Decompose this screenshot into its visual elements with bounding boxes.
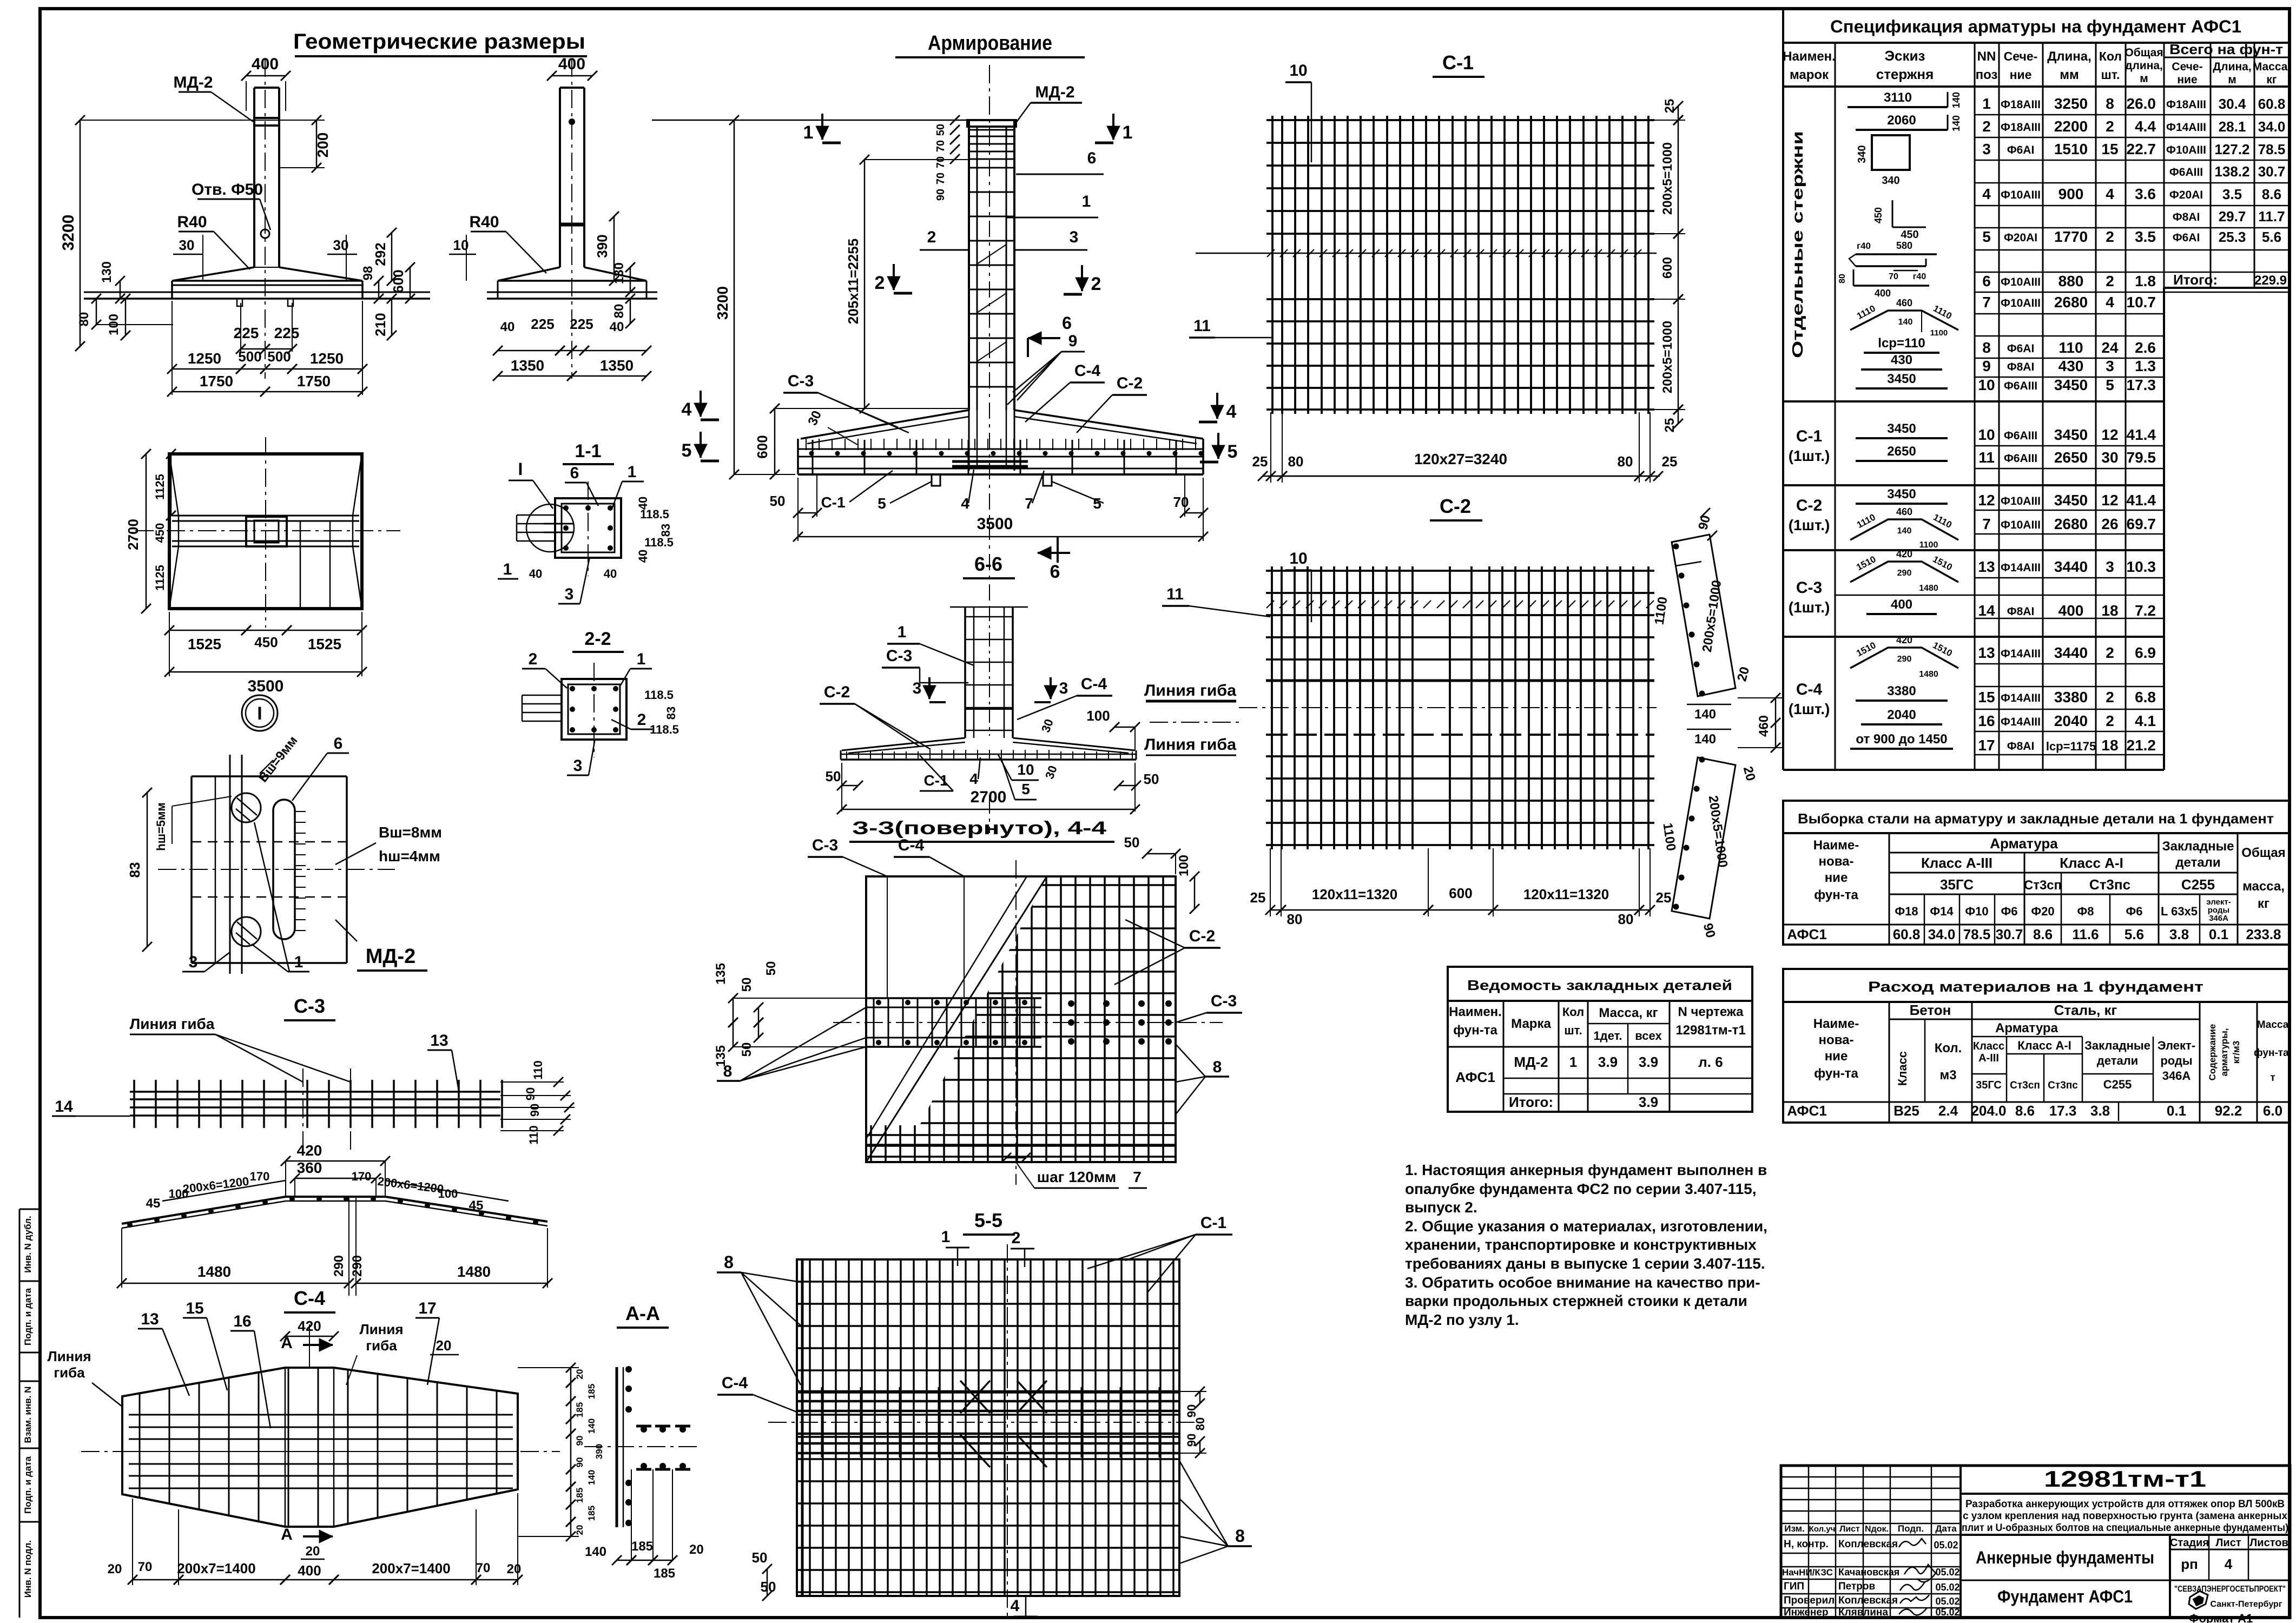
view: front elevation of foundation bbox=[84, 58, 430, 379]
svg-text:05.02: 05.02 bbox=[1934, 1540, 1958, 1551]
svg-text:1100: 1100 bbox=[1919, 540, 1938, 550]
svg-text:Линия гиба: Линия гиба bbox=[1144, 682, 1236, 700]
svg-text:Ф10: Ф10 bbox=[1965, 905, 1988, 918]
svg-text:С-4: С-4 bbox=[722, 1374, 748, 1392]
svg-text:Ст3сп: Ст3сп bbox=[2010, 1080, 2040, 1091]
svg-text:масса,: масса, bbox=[2242, 879, 2285, 894]
svg-text:л. 6: л. 6 bbox=[1698, 1054, 1723, 1070]
svg-text:Ф10АIII: Ф10АIII bbox=[2001, 276, 2041, 288]
svg-text:3200: 3200 bbox=[714, 286, 731, 320]
svg-text:длина,: длина, bbox=[2125, 60, 2163, 72]
dimensions between strip details (140/460/140) bbox=[1687, 693, 1783, 753]
svg-text:1: 1 bbox=[941, 1228, 951, 1246]
svg-text:90: 90 bbox=[528, 1104, 542, 1117]
table rows: specification data bbox=[1783, 95, 2289, 755]
svg-text:м: м bbox=[2228, 74, 2236, 86]
svg-text:200x7=1400: 200x7=1400 bbox=[372, 1560, 450, 1576]
svg-text:70: 70 bbox=[935, 140, 947, 152]
svg-text:80: 80 bbox=[612, 304, 626, 319]
svg-text:25: 25 bbox=[1662, 418, 1677, 433]
svg-text:I: I bbox=[518, 459, 523, 479]
svg-text:900: 900 bbox=[2059, 186, 2084, 202]
svg-text:Линия: Линия bbox=[359, 1321, 403, 1337]
svg-text:50: 50 bbox=[1144, 771, 1159, 787]
svg-text:83: 83 bbox=[659, 524, 672, 537]
svg-text:118.5: 118.5 bbox=[644, 536, 674, 549]
svg-text:Спецификация арматуры на фу: Спецификация арматуры на фундамент АФС1 bbox=[1830, 17, 2241, 36]
svg-text:5-5: 5-5 bbox=[974, 1209, 1002, 1231]
svg-text:12: 12 bbox=[1978, 492, 1995, 509]
svg-text:30.4: 30.4 bbox=[2219, 96, 2246, 112]
svg-text:3500: 3500 bbox=[248, 677, 284, 695]
svg-text:16: 16 bbox=[233, 1312, 251, 1330]
svg-text:340: 340 bbox=[1882, 175, 1899, 187]
svg-text:3250: 3250 bbox=[2054, 95, 2088, 112]
svg-text:1250: 1250 bbox=[188, 350, 221, 367]
svg-text:МД-2: МД-2 bbox=[173, 74, 213, 91]
svg-text:8.6: 8.6 bbox=[2015, 1103, 2035, 1119]
svg-text:Ф14: Ф14 bbox=[1930, 905, 1954, 918]
svg-text:30.7: 30.7 bbox=[2258, 163, 2286, 180]
svg-text:г40: г40 bbox=[1913, 272, 1926, 281]
svg-text:С-4: С-4 bbox=[898, 836, 925, 854]
svg-text:арматуры,: арматуры, bbox=[2219, 1028, 2229, 1076]
svg-text:2: 2 bbox=[1012, 1229, 1021, 1247]
svg-text:Ф14АIII: Ф14АIII bbox=[2001, 648, 2041, 660]
svg-text:290: 290 bbox=[332, 1255, 346, 1277]
svg-text:5: 5 bbox=[1093, 495, 1101, 512]
svg-text:346А: 346А bbox=[2162, 1069, 2191, 1083]
svg-text:80: 80 bbox=[1838, 274, 1847, 283]
svg-text:50: 50 bbox=[826, 768, 841, 784]
svg-text:Вш=8мм: Вш=8мм bbox=[379, 824, 442, 841]
svg-text:2680: 2680 bbox=[2054, 294, 2088, 311]
svg-text:118.5: 118.5 bbox=[650, 723, 679, 736]
svg-text:гиба: гиба bbox=[366, 1337, 397, 1354]
svg-text:1250: 1250 bbox=[310, 350, 344, 367]
svg-text:Проверил: Проверил bbox=[1784, 1595, 1835, 1606]
svg-text:1525: 1525 bbox=[188, 636, 221, 652]
svg-text:13: 13 bbox=[1978, 558, 1995, 575]
svg-text:3.6: 3.6 bbox=[2135, 186, 2156, 202]
svg-text:4: 4 bbox=[961, 495, 969, 512]
svg-text:80: 80 bbox=[1193, 1417, 1207, 1430]
svg-text:Качановская: Качановская bbox=[1838, 1567, 1899, 1578]
svg-text:127.2: 127.2 bbox=[2214, 141, 2249, 157]
svg-text:8: 8 bbox=[2106, 95, 2114, 112]
svg-text:3. Обратить особое внимание на: 3. Обратить особое внимание на качество … bbox=[1405, 1274, 1760, 1291]
svg-text:Линия гиба: Линия гиба bbox=[130, 1015, 215, 1032]
svg-text:Н, контр.: Н, контр. bbox=[1784, 1539, 1829, 1550]
svg-text:NN: NN bbox=[1977, 49, 1996, 64]
svg-text:140: 140 bbox=[1898, 318, 1913, 327]
svg-text:83: 83 bbox=[127, 862, 143, 878]
svg-text:6: 6 bbox=[1982, 273, 1991, 289]
svg-text:140: 140 bbox=[1951, 92, 1962, 108]
svg-text:3450: 3450 bbox=[2054, 426, 2088, 443]
svg-text:118.5: 118.5 bbox=[644, 688, 674, 702]
view: С-4 mesh (bent, plan) bbox=[81, 1287, 560, 1527]
svg-text:Класс А-III: Класс А-III bbox=[1921, 855, 1992, 871]
svg-text:Класс А-I: Класс А-I bbox=[2017, 1039, 2071, 1052]
labels and dims: С-2 bbox=[1250, 550, 1672, 927]
svg-text:Ф6АIII: Ф6АIII bbox=[2004, 380, 2037, 392]
svg-text:120x11=1320: 120x11=1320 bbox=[1312, 886, 1397, 902]
svg-text:450: 450 bbox=[254, 634, 278, 650]
svg-text:400: 400 bbox=[252, 55, 279, 73]
svg-text:225: 225 bbox=[570, 316, 593, 332]
svg-text:1480: 1480 bbox=[197, 1263, 231, 1280]
svg-text:3: 3 bbox=[2106, 358, 2114, 374]
svg-text:6.0: 6.0 bbox=[2263, 1103, 2282, 1119]
svg-text:138.2: 138.2 bbox=[2214, 163, 2249, 180]
svg-text:100: 100 bbox=[1177, 855, 1191, 876]
svg-text:25: 25 bbox=[1662, 99, 1677, 114]
svg-text:600: 600 bbox=[754, 435, 770, 458]
svg-text:130: 130 bbox=[100, 261, 114, 283]
svg-text:Итого:: Итого: bbox=[1509, 1094, 1553, 1110]
svg-text:Наиме-: Наиме- bbox=[1813, 1017, 1859, 1031]
svg-text:hш=5мм: hш=5мм bbox=[154, 802, 168, 850]
svg-text:70: 70 bbox=[1889, 272, 1898, 281]
svg-text:2: 2 bbox=[637, 711, 646, 729]
table: Ведомость закладных деталей bbox=[1448, 967, 1752, 1112]
svg-text:45: 45 bbox=[146, 1196, 161, 1211]
svg-text:3450: 3450 bbox=[2054, 377, 2088, 393]
svg-text:1125: 1125 bbox=[153, 474, 167, 500]
svg-text:346А: 346А bbox=[2209, 914, 2228, 923]
svg-text:400: 400 bbox=[2059, 602, 2084, 619]
svg-text:6: 6 bbox=[334, 735, 343, 753]
svg-text:2.4: 2.4 bbox=[1938, 1103, 1958, 1119]
svg-text:Ф8АI: Ф8АI bbox=[2007, 605, 2035, 618]
svg-text:Элект-: Элект- bbox=[2158, 1039, 2195, 1052]
svg-text:Ф18: Ф18 bbox=[1895, 905, 1918, 918]
svg-text:Линия: Линия bbox=[47, 1348, 91, 1364]
svg-text:100: 100 bbox=[438, 1187, 458, 1200]
svg-text:14: 14 bbox=[1978, 602, 1995, 619]
svg-text:6: 6 bbox=[1062, 313, 1072, 333]
svg-text:80: 80 bbox=[1618, 911, 1634, 927]
svg-text:98: 98 bbox=[361, 266, 375, 281]
svg-text:м: м bbox=[2140, 72, 2148, 85]
svg-text:290: 290 bbox=[350, 1255, 365, 1277]
svg-text:1125: 1125 bbox=[153, 565, 167, 591]
svg-text:5.6: 5.6 bbox=[2262, 229, 2281, 245]
svg-text:Расход материалов на 1 фундаме: Расход материалов на 1 фундамент bbox=[1868, 979, 2203, 995]
svg-text:225: 225 bbox=[234, 325, 259, 341]
svg-text:110: 110 bbox=[531, 1060, 545, 1080]
svg-text:Взам. инв. N: Взам. инв. N bbox=[23, 1387, 33, 1443]
svg-text:Бетон: Бетон bbox=[1910, 1002, 1951, 1018]
svg-text:Коплевская: Коплевская bbox=[1838, 1539, 1898, 1550]
svg-text:1510: 1510 bbox=[2054, 141, 2088, 157]
svg-text:229.9: 229.9 bbox=[2254, 273, 2287, 288]
svg-text:ние: ние bbox=[1825, 870, 1848, 885]
svg-text:11: 11 bbox=[1193, 317, 1211, 335]
svg-text:Ф6АI: Ф6АI bbox=[2173, 232, 2200, 244]
svg-text:1480: 1480 bbox=[1919, 584, 1938, 593]
svg-text:200: 200 bbox=[314, 133, 331, 158]
svg-text:7: 7 bbox=[1133, 1169, 1142, 1185]
svg-text:С-4: С-4 bbox=[1796, 681, 1823, 698]
table: Спецификация арматуры на фундамент АФС1 bbox=[1783, 9, 2291, 770]
svg-text:3450: 3450 bbox=[1887, 487, 1916, 502]
svg-text:16: 16 bbox=[1978, 712, 1995, 729]
svg-text:Ф14АIII: Ф14АIII bbox=[2166, 121, 2206, 134]
svg-text:г40: г40 bbox=[1857, 241, 1871, 251]
svg-text:10: 10 bbox=[1978, 426, 1995, 443]
svg-text:120x11=1320: 120x11=1320 bbox=[1523, 886, 1609, 902]
svg-text:С-1: С-1 bbox=[1442, 51, 1474, 74]
svg-text:185: 185 bbox=[654, 1566, 675, 1581]
svg-text:17.3: 17.3 bbox=[2127, 377, 2156, 393]
svg-text:нова-: нова- bbox=[1819, 1033, 1854, 1047]
svg-text:8: 8 bbox=[1235, 1526, 1245, 1546]
svg-text:Выборка стали на арматуру и за: Выборка стали на арматуру и закладные де… bbox=[1798, 810, 2274, 827]
svg-text:(1шт.): (1шт.) bbox=[1789, 447, 1830, 464]
svg-text:7.2: 7.2 bbox=[2135, 602, 2156, 619]
svg-text:3.9: 3.9 bbox=[1639, 1094, 1658, 1110]
labels and dims: reinforced column bbox=[652, 83, 1132, 479]
svg-text:3200: 3200 bbox=[60, 215, 77, 251]
svg-text:70: 70 bbox=[476, 1561, 491, 1575]
svg-text:8: 8 bbox=[723, 1063, 733, 1080]
labels: 6-6 view bbox=[820, 585, 1270, 833]
svg-text:34.0: 34.0 bbox=[1928, 926, 1956, 942]
svg-text:3: 3 bbox=[2106, 558, 2114, 575]
svg-text:70: 70 bbox=[138, 1560, 153, 1574]
svg-text:С-4: С-4 bbox=[294, 1287, 325, 1309]
svg-text:Длина,: Длина, bbox=[2047, 49, 2092, 64]
svg-text:12: 12 bbox=[2101, 492, 2118, 509]
svg-text:С-2: С-2 bbox=[1440, 495, 1471, 517]
svg-text:20: 20 bbox=[575, 1369, 585, 1380]
svg-text:Сече-: Сече- bbox=[2172, 61, 2202, 73]
svg-text:420: 420 bbox=[1896, 635, 1912, 645]
svg-text:фун-та: фун-та bbox=[1453, 1023, 1497, 1038]
svg-text:50: 50 bbox=[1124, 834, 1140, 850]
svg-text:100: 100 bbox=[1086, 708, 1110, 724]
svg-text:1770: 1770 bbox=[2054, 228, 2088, 245]
svg-text:(1шт.): (1шт.) bbox=[1789, 701, 1830, 717]
svg-text:Ф10АIII: Ф10АIII bbox=[2001, 519, 2041, 531]
svg-text:7: 7 bbox=[1025, 495, 1033, 512]
svg-text:Инв. N подл.: Инв. N подл. bbox=[23, 1540, 33, 1598]
svg-text:МД-2 по узлу 1.: МД-2 по узлу 1. bbox=[1405, 1311, 1519, 1328]
view: side elevation of foundation bbox=[487, 58, 657, 379]
svg-text:290: 290 bbox=[1897, 569, 1912, 578]
svg-text:460: 460 bbox=[1757, 715, 1771, 737]
svg-text:3440: 3440 bbox=[2054, 558, 2088, 575]
svg-text:80: 80 bbox=[1287, 911, 1303, 927]
svg-text:2: 2 bbox=[2106, 644, 2114, 661]
svg-text:12981тм-т1: 12981тм-т1 bbox=[1675, 1023, 1745, 1038]
table column: Наимен. марок labels bbox=[1789, 131, 1830, 717]
svg-text:Подп. и дата: Подп. и дата bbox=[23, 1288, 33, 1345]
view: mesh С-2 bbox=[1239, 495, 1657, 849]
view: С-3 bent profile bbox=[117, 1142, 552, 1296]
svg-text:АФС1: АФС1 bbox=[1787, 1103, 1827, 1119]
svg-text:Ф18АIII: Ф18АIII bbox=[2166, 98, 2206, 111]
svg-text:Изм.: Изм. bbox=[1784, 1523, 1805, 1534]
svg-text:25: 25 bbox=[1250, 889, 1266, 906]
svg-text:1-1: 1-1 bbox=[575, 441, 601, 461]
svg-text:м3: м3 bbox=[1939, 1068, 1956, 1083]
svg-text:lcp=110: lcp=110 bbox=[1878, 336, 1925, 351]
svg-text:70: 70 bbox=[935, 156, 947, 168]
svg-text:1750: 1750 bbox=[200, 373, 233, 390]
svg-text:69.7: 69.7 bbox=[2127, 516, 2156, 532]
svg-text:430: 430 bbox=[1891, 353, 1912, 367]
svg-text:7: 7 bbox=[1982, 294, 1991, 311]
svg-text:6.9: 6.9 bbox=[2135, 644, 2156, 661]
svg-text:292: 292 bbox=[372, 242, 388, 266]
svg-text:15: 15 bbox=[1978, 689, 1995, 705]
svg-text:0.1: 0.1 bbox=[2209, 926, 2228, 942]
svg-text:1: 1 bbox=[1569, 1054, 1577, 1070]
svg-text:Листов: Листов bbox=[2249, 1537, 2288, 1549]
svg-text:Масса, кг: Масса, кг bbox=[1599, 1006, 1658, 1020]
svg-text:10: 10 bbox=[1978, 377, 1995, 393]
svg-text:25: 25 bbox=[1252, 453, 1268, 470]
svg-text:233.8: 233.8 bbox=[2246, 926, 2281, 942]
svg-text:Санкт-Петербург: Санкт-Петербург bbox=[2211, 1600, 2282, 1609]
svg-text:Ст3сп: Ст3сп bbox=[2024, 878, 2062, 893]
svg-text:R40: R40 bbox=[469, 213, 499, 231]
text: notes 1-3 bbox=[1405, 1162, 1767, 1328]
svg-text:Ф10АIII: Ф10АIII bbox=[2001, 297, 2041, 309]
svg-text:140: 140 bbox=[1694, 732, 1716, 747]
svg-text:Стадия: Стадия bbox=[2170, 1537, 2209, 1549]
svg-text:8: 8 bbox=[1982, 339, 1991, 356]
section 1-1 of column bbox=[498, 441, 674, 604]
svg-text:НачНИ/КЗС: НачНИ/КЗС bbox=[1782, 1567, 1833, 1578]
svg-text:45: 45 bbox=[469, 1198, 484, 1213]
labels and dims: С-1 bbox=[1189, 62, 1685, 483]
svg-text:140: 140 bbox=[1951, 115, 1962, 131]
svg-text:варки продольных стержней стои: варки продольных стержней стоики к детал… bbox=[1405, 1292, 1747, 1309]
table: Выборка стали на арматуру и закладные детали на 1 фундамент bbox=[1783, 801, 2289, 945]
svg-text:2: 2 bbox=[1982, 118, 1991, 135]
labels: МД-2 detail bbox=[127, 734, 442, 972]
svg-text:40: 40 bbox=[529, 567, 542, 580]
svg-text:2: 2 bbox=[1091, 274, 1101, 294]
svg-text:80: 80 bbox=[1288, 453, 1304, 470]
svg-text:130: 130 bbox=[612, 262, 626, 284]
view: footing of reinforced foundation bbox=[798, 410, 1204, 486]
svg-text:1: 1 bbox=[628, 463, 637, 481]
svg-text:140: 140 bbox=[1694, 707, 1716, 722]
svg-text:92.2: 92.2 bbox=[2215, 1103, 2242, 1119]
svg-text:3.9: 3.9 bbox=[1598, 1054, 1618, 1070]
view: section 6-6 of foundation bbox=[841, 537, 1136, 760]
svg-text:50: 50 bbox=[764, 961, 778, 976]
svg-text:АФС1: АФС1 bbox=[1455, 1069, 1495, 1085]
svg-text:5: 5 bbox=[878, 495, 886, 512]
svg-text:ние: ние bbox=[2177, 74, 2197, 86]
svg-text:2: 2 bbox=[2106, 273, 2114, 289]
svg-text:ние: ние bbox=[1825, 1049, 1848, 1064]
svg-text:83: 83 bbox=[664, 707, 678, 720]
svg-text:Армирование: Армирование bbox=[928, 32, 1052, 55]
svg-text:3450: 3450 bbox=[2054, 492, 2088, 509]
svg-text:5: 5 bbox=[1228, 441, 1238, 462]
svg-text:340: 340 bbox=[1856, 145, 1868, 163]
svg-text:Кол: Кол bbox=[1562, 1005, 1584, 1019]
svg-text:1: 1 bbox=[637, 650, 646, 668]
svg-text:Общая: Общая bbox=[2241, 846, 2285, 860]
svg-text:Арматура: Арматура bbox=[1995, 1021, 2059, 1035]
svg-text:185: 185 bbox=[586, 1506, 597, 1521]
svg-text:11.6: 11.6 bbox=[2072, 926, 2099, 942]
svg-text:10: 10 bbox=[1289, 62, 1307, 80]
svg-text:Фундамент АФС1: Фундамент АФС1 bbox=[1997, 1587, 2133, 1606]
svg-text:С255: С255 bbox=[2103, 1078, 2132, 1091]
svg-text:Ф20АI: Ф20АI bbox=[2004, 232, 2037, 244]
svg-text:Клявлина: Клявлина bbox=[1838, 1607, 1888, 1618]
svg-text:С-1: С-1 bbox=[1796, 427, 1822, 445]
svg-text:Линия гиба: Линия гиба bbox=[1144, 736, 1236, 754]
svg-text:20: 20 bbox=[108, 1562, 122, 1576]
svg-text:4: 4 bbox=[2225, 1556, 2233, 1572]
svg-text:11: 11 bbox=[1978, 449, 1995, 466]
svg-text:90: 90 bbox=[575, 1436, 585, 1446]
svg-text:С-4: С-4 bbox=[1074, 362, 1101, 380]
labels: 3-3 view bbox=[714, 834, 1242, 1188]
svg-text:120x27=3240: 120x27=3240 bbox=[1414, 451, 1507, 467]
svg-text:фун-та,: фун-та, bbox=[2254, 1047, 2292, 1059]
svg-text:МД-2: МД-2 bbox=[366, 945, 416, 968]
svg-text:30: 30 bbox=[2101, 449, 2118, 466]
svg-text:70: 70 bbox=[1173, 494, 1189, 510]
svg-text:2.6: 2.6 bbox=[2135, 339, 2156, 356]
svg-text:3.8: 3.8 bbox=[2090, 1103, 2110, 1119]
svg-text:8: 8 bbox=[1213, 1058, 1222, 1076]
svg-text:110: 110 bbox=[2059, 339, 2083, 356]
svg-text:МД-2: МД-2 bbox=[1514, 1054, 1548, 1070]
svg-text:12: 12 bbox=[2101, 426, 2118, 443]
svg-text:Ф20АI: Ф20АI bbox=[2169, 189, 2203, 201]
svg-text:50: 50 bbox=[740, 978, 754, 992]
svg-text:2: 2 bbox=[529, 650, 538, 668]
svg-text:плит и U-образных болтов на сп: плит и U-образных болтов на специальные … bbox=[1962, 1522, 2288, 1534]
svg-text:1: 1 bbox=[803, 122, 814, 143]
svg-text:20: 20 bbox=[507, 1562, 522, 1576]
svg-text:мм: мм bbox=[2060, 68, 2079, 82]
svg-text:80: 80 bbox=[1618, 453, 1633, 470]
svg-text:170: 170 bbox=[250, 1170, 270, 1183]
detail: edge strip bars of С-2 (upper) bbox=[1652, 508, 1753, 697]
svg-text:С-1: С-1 bbox=[821, 494, 845, 511]
svg-text:18: 18 bbox=[2101, 737, 2118, 754]
svg-text:1100: 1100 bbox=[1930, 328, 1948, 338]
svg-text:40: 40 bbox=[636, 550, 650, 563]
svg-text:С255: С255 bbox=[2181, 876, 2215, 893]
svg-text:R40: R40 bbox=[177, 213, 207, 231]
svg-text:11: 11 bbox=[1166, 585, 1184, 603]
svg-text:6.8: 6.8 bbox=[2135, 689, 2156, 705]
svg-text:Ф8: Ф8 bbox=[2077, 905, 2094, 918]
svg-text:5: 5 bbox=[1982, 228, 1991, 245]
svg-text:40: 40 bbox=[604, 567, 617, 580]
svg-text:185: 185 bbox=[586, 1384, 597, 1399]
svg-text:шаг 120мм: шаг 120мм bbox=[1037, 1169, 1117, 1185]
svg-text:28.1: 28.1 bbox=[2219, 118, 2246, 135]
svg-text:2650: 2650 bbox=[1887, 444, 1916, 459]
svg-text:430: 430 bbox=[2059, 358, 2084, 374]
svg-text:210: 210 bbox=[372, 313, 388, 336]
